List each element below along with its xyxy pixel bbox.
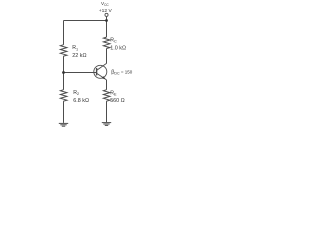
svg-text:R2: R2	[73, 90, 79, 96]
wire right vertical upper	[106, 21, 108, 38]
wire emitter	[106, 80, 108, 90]
svg-text:1.0 kΩ: 1.0 kΩ	[110, 46, 126, 52]
terminal VCC	[105, 13, 108, 16]
wire base	[64, 72, 97, 74]
svg-text:22 kΩ: 22 kΩ	[72, 53, 86, 59]
svg-text:+12 V: +12 V	[99, 8, 113, 14]
svg-text:R1: R1	[72, 45, 78, 51]
svg-text:560 Ω: 560 Ω	[110, 98, 125, 104]
emitter arrowhead	[102, 76, 106, 79]
svg-text:6.8 kΩ: 6.8 kΩ	[73, 98, 89, 104]
wire left vertical middle	[63, 56, 65, 90]
wire collector	[106, 49, 108, 64]
resistor R2	[60, 90, 67, 101]
resistor R1	[60, 45, 67, 56]
svg-text:RC: RC	[110, 37, 117, 43]
wire left vertical lower	[63, 101, 65, 123]
junction dot top	[105, 19, 108, 22]
svg-text:βDC = 150: βDC = 150	[111, 69, 133, 75]
ground right	[102, 123, 111, 126]
resistor RC	[103, 37, 110, 48]
junction dot base	[62, 71, 65, 74]
wire supply stub	[106, 17, 108, 21]
transistor Q1	[94, 63, 107, 80]
resistor RE	[103, 90, 110, 101]
wire top rail	[64, 20, 107, 22]
wire right vertical lower	[106, 101, 108, 122]
ground left	[59, 123, 68, 126]
wire left vertical upper	[63, 21, 65, 45]
svg-text:VCC: VCC	[101, 1, 109, 7]
svg-text:RE: RE	[110, 91, 117, 97]
